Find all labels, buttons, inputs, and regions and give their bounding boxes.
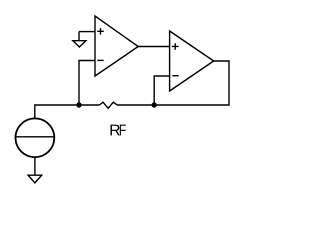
label RF (110, 125, 125, 136)
junction dot left (76, 102, 81, 107)
wire bottom node left section (35, 105, 100, 118)
wire U1 plus input (79, 31, 95, 33)
resistor RF (99, 102, 117, 108)
op-amp U2 (170, 31, 214, 91)
op-amp U1 plus input label (97, 28, 104, 34)
wire U1 output to U2 plus input (138, 46, 169, 48)
op-amp U2 plus input label (172, 43, 179, 50)
junction dot right (152, 102, 157, 107)
op-amp U1 (95, 16, 138, 76)
ground below current source (28, 175, 42, 183)
wire U2 output feedback loop (154, 61, 229, 105)
wire current source to ground (34, 157, 36, 175)
current source I1 (16, 118, 55, 157)
op-amp U1 minus input label (97, 59, 103, 61)
wire U1 minus input down to bottom node (79, 61, 95, 106)
op-amp U2 minus input label (172, 75, 178, 77)
wire U2 minus input down to bottom node (154, 76, 169, 105)
wire bottom node right section (117, 104, 154, 106)
ground at U1 plus input (73, 32, 86, 47)
